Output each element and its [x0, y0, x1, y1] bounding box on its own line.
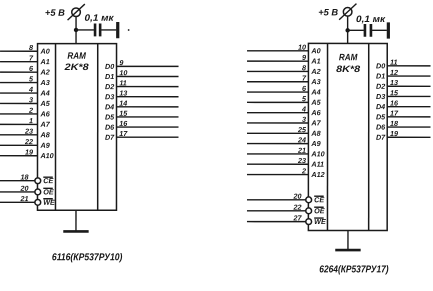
svg-text:A5: A5 — [310, 98, 321, 107]
svg-text:A11: A11 — [310, 160, 324, 169]
svg-text:3: 3 — [302, 115, 306, 124]
U2 6264 data column divider — [368, 43, 370, 230]
wire data pin 17 (D5) of U2 6264 — [387, 109, 430, 118]
wire address pin 7 (A3) of U2 6264 — [247, 74, 308, 83]
decoupling capacitor 0,1uF of U1 6116 — [95, 24, 100, 37]
wire chip GND pin to ground of U2 6264 — [347, 231, 349, 251]
svg-text:2: 2 — [28, 106, 33, 115]
svg-text:A7: A7 — [310, 118, 321, 127]
svg-text:6116(КР537РУ10): 6116(КР537РУ10) — [52, 252, 123, 263]
svg-text:27: 27 — [292, 213, 302, 222]
wire address pin 4 (A6) of U2 6264 — [247, 104, 308, 113]
svg-text:8: 8 — [29, 43, 33, 52]
wire data pin 18 (D6) of U2 6264 — [387, 119, 430, 128]
svg-text:RAM: RAM — [67, 51, 86, 61]
wire address pin 19 (A10) of U1 6116 — [0, 148, 37, 157]
svg-text:D4: D4 — [376, 102, 385, 111]
wire data pin 16 (D6) of U1 6116 — [117, 119, 179, 128]
wire control pin 22 (OE) of U2 6264 with inversion circle — [247, 203, 312, 214]
svg-text:0,1 мк: 0,1 мк — [356, 14, 386, 24]
wire address pin 2 (A12) of U2 6264 — [247, 166, 308, 175]
svg-text:9: 9 — [119, 58, 123, 67]
svg-text:A12: A12 — [310, 170, 324, 179]
svg-text:10: 10 — [119, 68, 127, 77]
svg-text:19: 19 — [390, 129, 398, 138]
svg-text:A5: A5 — [40, 99, 51, 108]
wire address pin 24 (A9) of U2 6264 — [247, 135, 308, 144]
pin label CE (active low) of U2 6264 — [314, 195, 324, 204]
svg-text:4: 4 — [301, 104, 306, 113]
ground symbol (bar) at capacitor of U1 6116 — [116, 22, 119, 38]
+5V tap symbol (circle with slash) of U2 6264 — [339, 4, 356, 20]
svg-text:21: 21 — [19, 194, 28, 203]
ground symbol below U1 6116 — [63, 230, 88, 233]
wire address pin 6 (A4) of U2 6264 — [247, 84, 308, 93]
pin label WE (active low) of U2 6264 — [314, 217, 326, 226]
svg-text:11: 11 — [390, 58, 397, 67]
ground symbol below U2 6264 — [335, 249, 360, 252]
wire control pin 20 (CE) of U2 6264 with inversion circle — [247, 192, 312, 203]
wire data pin 17 (D7) of U1 6116 — [117, 129, 179, 138]
svg-text:23: 23 — [297, 156, 306, 165]
wire address pin 5 (A5) of U2 6264 — [247, 94, 308, 103]
svg-text:A9: A9 — [310, 139, 320, 148]
svg-text:17: 17 — [390, 109, 399, 118]
wire address pin 22 (A9) of U1 6116 — [0, 137, 38, 146]
wire capacitor to ground bar of U2 6264 — [372, 29, 387, 31]
pin label OE (active low) of U2 6264 — [314, 206, 325, 215]
pin label CE (active low) of U1 6116 — [43, 176, 53, 185]
svg-text:1: 1 — [29, 116, 33, 125]
wire data pin 19 (D7) of U2 6264 — [387, 129, 430, 138]
svg-text:2K*8: 2K*8 — [63, 62, 89, 72]
wire data pin 14 (D4) of U1 6116 — [117, 99, 179, 108]
wire control pin 27 (WE) of U2 6264 with inversion circle — [247, 213, 312, 224]
svg-text:18: 18 — [20, 173, 28, 182]
svg-text:24: 24 — [297, 135, 306, 144]
svg-text:A7: A7 — [40, 120, 51, 129]
svg-text:0,1 мк: 0,1 мк — [85, 13, 115, 23]
svg-text:A10: A10 — [310, 149, 324, 158]
wire control pin 18 (CE) of U1 6116 with inversion circle — [0, 173, 41, 184]
wire data pin 9 (D0) of U1 6116 — [117, 58, 179, 67]
wire data pin 15 (D3) of U2 6264 — [387, 88, 430, 97]
svg-text:D3: D3 — [105, 92, 114, 101]
wire from +5V tap to chip Vcc of U1 6116 — [75, 17, 77, 44]
svg-text:A3: A3 — [310, 77, 320, 86]
svg-text:15: 15 — [119, 109, 128, 118]
svg-text:12: 12 — [390, 68, 398, 77]
svg-text:A2: A2 — [310, 67, 320, 76]
wire chip GND pin to ground of U1 6116 — [75, 210, 77, 231]
wire address pin 25 (A8) of U2 6264 — [247, 125, 308, 134]
svg-text:D5: D5 — [105, 112, 115, 121]
svg-text:A4: A4 — [310, 87, 320, 96]
svg-text:13: 13 — [390, 78, 398, 87]
svg-text:15: 15 — [390, 88, 399, 97]
wire data pin 11 (D0) of U2 6264 — [387, 58, 430, 67]
wire address pin 8 (A0) of U1 6116 — [0, 43, 38, 52]
svg-text:+5 В: +5 В — [45, 8, 65, 18]
svg-text:A6: A6 — [310, 108, 321, 117]
svg-text:25: 25 — [297, 125, 307, 134]
wire control pin 21 (WE) of U1 6116 with inversion circle — [0, 194, 41, 205]
svg-text:D1: D1 — [105, 72, 114, 81]
svg-text:D0: D0 — [105, 62, 114, 71]
svg-text:20: 20 — [19, 184, 28, 193]
wire address pin 2 (A6) of U1 6116 — [0, 106, 38, 115]
pin label OE (active low) of U1 6116 — [43, 187, 54, 196]
svg-text:A0: A0 — [40, 47, 50, 56]
svg-text:A6: A6 — [40, 109, 51, 118]
wire data pin 11 (D2) of U1 6116 — [117, 78, 179, 87]
wire from +5V tap to chip Vcc of U2 6264 — [347, 16, 349, 43]
svg-text:4: 4 — [28, 85, 33, 94]
svg-text:A8: A8 — [40, 130, 50, 139]
svg-text:A1: A1 — [40, 57, 50, 66]
svg-text:A8: A8 — [310, 129, 320, 138]
wire data pin 13 (D3) of U1 6116 — [117, 89, 179, 98]
svg-text:22: 22 — [24, 137, 33, 146]
svg-text:A9: A9 — [39, 141, 49, 150]
wire junction to decoupling capacitor of U1 6116 — [76, 29, 94, 31]
wire address pin 8 (A2) of U2 6264 — [247, 63, 308, 72]
wire data pin 16 (D4) of U2 6264 — [387, 98, 430, 107]
svg-text:20: 20 — [292, 192, 301, 201]
svg-text:2: 2 — [301, 166, 306, 175]
svg-text:A2: A2 — [40, 68, 50, 77]
wire data pin 15 (D5) of U1 6116 — [117, 109, 179, 118]
wire address pin 23 (A8) of U1 6116 — [0, 127, 38, 136]
wire address pin 9 (A1) of U2 6264 — [247, 53, 308, 62]
pin label WE (active low) of U1 6116 — [43, 198, 55, 207]
wire address pin 3 (A7) of U2 6264 — [247, 115, 308, 124]
svg-text:D2: D2 — [376, 82, 385, 91]
junction node of decoupling branch of U2 6264 — [345, 28, 349, 32]
junction node of decoupling branch of U1 6116 — [74, 28, 78, 32]
svg-text:A4: A4 — [40, 88, 50, 97]
svg-text:22: 22 — [292, 203, 301, 212]
RAM chip U2 6264 outline — [308, 43, 387, 230]
svg-text:8K*8: 8K*8 — [336, 64, 361, 74]
wire junction to decoupling capacitor of U2 6264 — [348, 29, 364, 31]
svg-text:23: 23 — [24, 127, 33, 136]
svg-text:A0: A0 — [310, 46, 320, 55]
wire data pin 13 (D2) of U2 6264 — [387, 78, 430, 87]
svg-text:A1: A1 — [310, 57, 320, 66]
svg-text:D6: D6 — [105, 123, 115, 132]
svg-text:D7: D7 — [376, 133, 386, 142]
wire address pin 7 (A1) of U1 6116 — [0, 53, 38, 62]
wire address pin 6 (A2) of U1 6116 — [0, 64, 38, 73]
svg-text:D3: D3 — [376, 92, 385, 101]
wire data pin 10 (D1) of U1 6116 — [117, 68, 179, 77]
svg-text:D6: D6 — [376, 123, 386, 132]
svg-text:D2: D2 — [105, 82, 114, 91]
svg-text:D1: D1 — [376, 72, 385, 81]
scan artifact dot near left capacitor ground — [128, 29, 130, 31]
U1 6116 data column divider — [97, 44, 99, 211]
svg-text:3: 3 — [29, 95, 33, 104]
svg-text:21: 21 — [297, 146, 306, 155]
svg-text:14: 14 — [119, 99, 127, 108]
wire address pin 23 (A11) of U2 6264 — [247, 156, 308, 165]
ground symbol (bar) at capacitor of U2 6264 — [387, 22, 390, 38]
wire address pin 5 (A3) of U1 6116 — [0, 74, 38, 83]
svg-text:18: 18 — [390, 119, 398, 128]
svg-text:8: 8 — [302, 63, 306, 72]
wire control pin 20 (OE) of U1 6116 with inversion circle — [0, 184, 41, 195]
svg-text:13: 13 — [119, 89, 127, 98]
wire data pin 12 (D1) of U2 6264 — [387, 68, 430, 77]
wire address pin 10 (A0) of U2 6264 — [247, 43, 308, 52]
svg-text:11: 11 — [119, 78, 126, 87]
svg-text:17: 17 — [119, 129, 128, 138]
wire address pin 1 (A7) of U1 6116 — [0, 116, 38, 125]
svg-text:RAM: RAM — [339, 52, 358, 62]
svg-text:+5 В: +5 В — [318, 7, 338, 17]
svg-text:D4: D4 — [105, 102, 114, 111]
+5V tap symbol (circle with slash) of U1 6116 — [68, 4, 85, 20]
svg-text:6264(КР537РУ17): 6264(КР537РУ17) — [319, 264, 389, 275]
wire capacitor to ground bar of U1 6116 — [101, 29, 116, 31]
svg-text:19: 19 — [25, 148, 33, 157]
svg-text:16: 16 — [390, 98, 399, 107]
svg-text:D7: D7 — [105, 133, 115, 142]
wire address pin 4 (A4) of U1 6116 — [0, 85, 38, 94]
wire address pin 21 (A10) of U2 6264 — [247, 146, 308, 155]
svg-text:D0: D0 — [376, 61, 385, 70]
wire address pin 3 (A5) of U1 6116 — [0, 95, 38, 104]
decoupling capacitor 0,1uF of U2 6264 — [365, 24, 371, 37]
svg-text:16: 16 — [119, 119, 128, 128]
U1 6116 address column divider — [54, 44, 56, 211]
svg-text:A3: A3 — [40, 78, 50, 87]
RAM chip U1 6116 outline — [37, 44, 116, 211]
svg-text:D5: D5 — [376, 112, 386, 121]
svg-text:9: 9 — [302, 53, 306, 62]
U2 6264 address column divider — [326, 43, 328, 230]
svg-text:10: 10 — [298, 43, 306, 52]
svg-text:A10: A10 — [39, 151, 53, 160]
